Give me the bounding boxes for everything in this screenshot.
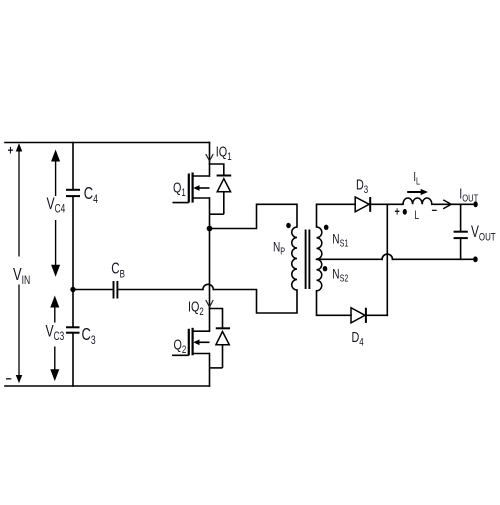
transformer core bbox=[306, 230, 310, 290]
wire NS1 top lead to D3 bbox=[317, 204, 356, 227]
wire D4 cathode to vertical bbox=[366, 314, 387, 316]
svg-text:L: L bbox=[415, 210, 420, 223]
svg-text:–: – bbox=[432, 204, 438, 218]
IQ1 current arrowhead bbox=[206, 154, 213, 161]
svg-text:CB: CB bbox=[111, 259, 125, 281]
diode D4 bbox=[351, 308, 366, 323]
svg-text:IQ2: IQ2 bbox=[188, 298, 204, 319]
IL current arrow bbox=[407, 191, 421, 193]
node NS2 polarity dot bbox=[323, 266, 328, 271]
wire CB left bbox=[73, 289, 113, 291]
transformer secondary winding NS2 bbox=[317, 259, 322, 291]
wire Q2 diode branch top bbox=[210, 309, 223, 329]
svg-text:IOUT: IOUT bbox=[459, 185, 478, 204]
capacitor C3 bbox=[66, 327, 80, 332]
node NS1 polarity dot bbox=[324, 225, 329, 230]
wire Q1 diode branch top bbox=[210, 164, 224, 176]
VIN measure arrow bbox=[17, 145, 22, 382]
node L polarity dot bbox=[403, 209, 407, 215]
wire CB right bbox=[118, 289, 203, 291]
wire inductor to output bbox=[432, 203, 476, 205]
svg-text:Q2: Q2 bbox=[174, 336, 187, 357]
svg-text:NP: NP bbox=[273, 239, 285, 257]
node junction A (Q1/Q2 midpoint) bbox=[207, 226, 213, 232]
svg-text:C3: C3 bbox=[82, 325, 96, 347]
wire junction A to primary top bbox=[210, 204, 298, 228]
node junction B (C4/C3 midpoint) bbox=[70, 287, 75, 292]
svg-text:C4: C4 bbox=[84, 184, 98, 206]
svg-text:Q1: Q1 bbox=[173, 179, 186, 200]
svg-text:D3: D3 bbox=[356, 176, 368, 197]
IOUT flow arrowhead bbox=[443, 200, 451, 209]
svg-text:+: + bbox=[395, 205, 400, 219]
svg-text:IL: IL bbox=[413, 171, 420, 187]
capacitor C4 bbox=[66, 190, 80, 196]
transformer primary winding NP bbox=[292, 227, 297, 290]
svg-text:+: + bbox=[8, 144, 14, 158]
wire hop over rectifier vertical bbox=[382, 254, 392, 259]
wire center tap left bbox=[317, 258, 383, 260]
IQ2 current arrowhead bbox=[206, 300, 213, 307]
transistor Q2 bbox=[172, 328, 210, 356]
svg-text:–: – bbox=[6, 370, 12, 386]
transformer secondary winding NS1 bbox=[317, 227, 322, 259]
svg-text:NS2: NS2 bbox=[332, 266, 348, 284]
capacitor CB bbox=[114, 281, 118, 299]
wire C4 branch bbox=[72, 143, 74, 190]
wire VOUT cap top lead bbox=[460, 204, 462, 231]
node NP polarity dot bbox=[286, 223, 291, 228]
wire hop over mid vertical bbox=[203, 284, 213, 289]
wire NS2 bottom lead bbox=[317, 291, 352, 316]
diode (body) of Q2 bbox=[210, 328, 231, 368]
node output terminal bottom bbox=[473, 256, 478, 262]
svg-text:NS1: NS1 bbox=[332, 231, 348, 249]
diode (body) of Q1 bbox=[210, 176, 232, 215]
wire bottom rail bbox=[5, 385, 210, 387]
svg-text:VOUT: VOUT bbox=[471, 223, 496, 244]
wire Q1 drain vertical bbox=[209, 143, 211, 177]
wire mid vertical (Q1 source to Q2 drain) bbox=[209, 198, 211, 331]
svg-text:D4: D4 bbox=[352, 328, 365, 349]
svg-text:VIN: VIN bbox=[13, 265, 30, 287]
wire VOUT cap bottom lead bbox=[460, 238, 462, 259]
wire top rail bbox=[5, 142, 210, 144]
wire D3 cathode to inductor bbox=[370, 203, 403, 205]
wire rectifier output vertical (D3/D4 join) bbox=[386, 204, 388, 315]
inductor L bbox=[403, 198, 432, 204]
svg-text:VC3: VC3 bbox=[46, 323, 65, 344]
capacitor VOUT bbox=[454, 232, 468, 238]
diode D3 bbox=[355, 197, 370, 212]
node output terminal top bbox=[473, 201, 477, 207]
wire CB to primary bottom bbox=[213, 290, 297, 314]
wire center tap to bottom terminal bbox=[393, 258, 476, 260]
VC3 measure arrow bbox=[51, 298, 58, 380]
VC4 measure arrow bbox=[52, 152, 59, 275]
svg-text:VC4: VC4 bbox=[47, 195, 66, 216]
transistor Q1 bbox=[173, 173, 210, 203]
svg-text:IQ1: IQ1 bbox=[216, 143, 232, 164]
wire Q2 source vertical bbox=[209, 354, 211, 387]
wire C3 branch bbox=[72, 290, 74, 327]
